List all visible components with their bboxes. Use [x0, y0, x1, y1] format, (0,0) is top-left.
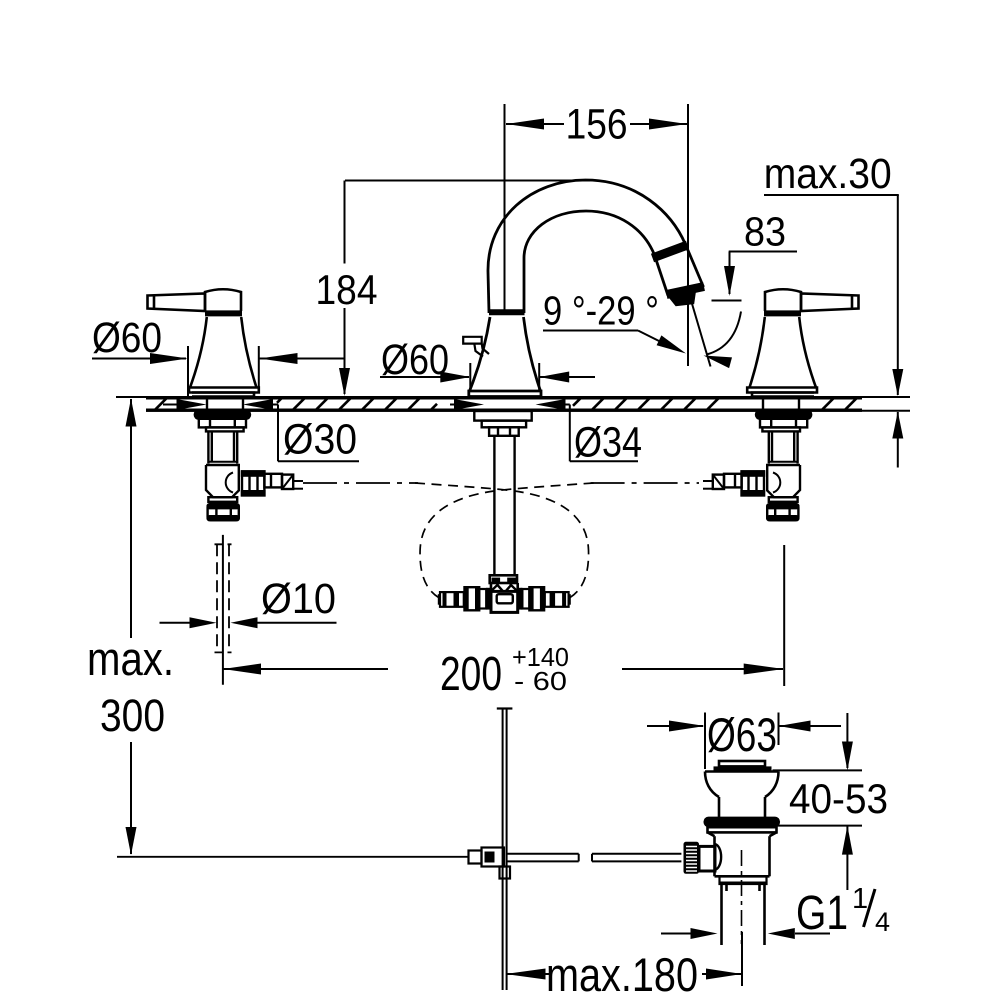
svg-text:Ø30: Ø30	[283, 416, 357, 464]
svg-text:9 °-29 °: 9 °-29 °	[543, 288, 659, 334]
svg-text:184: 184	[316, 266, 378, 313]
svg-text:G1: G1	[796, 887, 848, 940]
svg-text:Ø60: Ø60	[381, 336, 449, 384]
svg-text:1: 1	[852, 883, 868, 915]
svg-text:40-53: 40-53	[789, 775, 888, 822]
svg-text:Ø10: Ø10	[261, 575, 336, 623]
svg-text:300: 300	[100, 690, 165, 741]
svg-text:200: 200	[440, 648, 502, 701]
svg-text:max.: max.	[87, 632, 174, 685]
svg-text:Ø63: Ø63	[707, 708, 777, 761]
svg-text:max.30: max.30	[764, 150, 892, 198]
svg-text:4: 4	[875, 907, 890, 937]
svg-text:- 60: - 60	[514, 666, 567, 696]
svg-text:max.180: max.180	[546, 948, 698, 1000]
svg-text:Ø34: Ø34	[574, 419, 642, 467]
svg-text:156: 156	[566, 100, 628, 148]
svg-text:83: 83	[744, 209, 786, 255]
svg-text:Ø60: Ø60	[92, 314, 162, 362]
